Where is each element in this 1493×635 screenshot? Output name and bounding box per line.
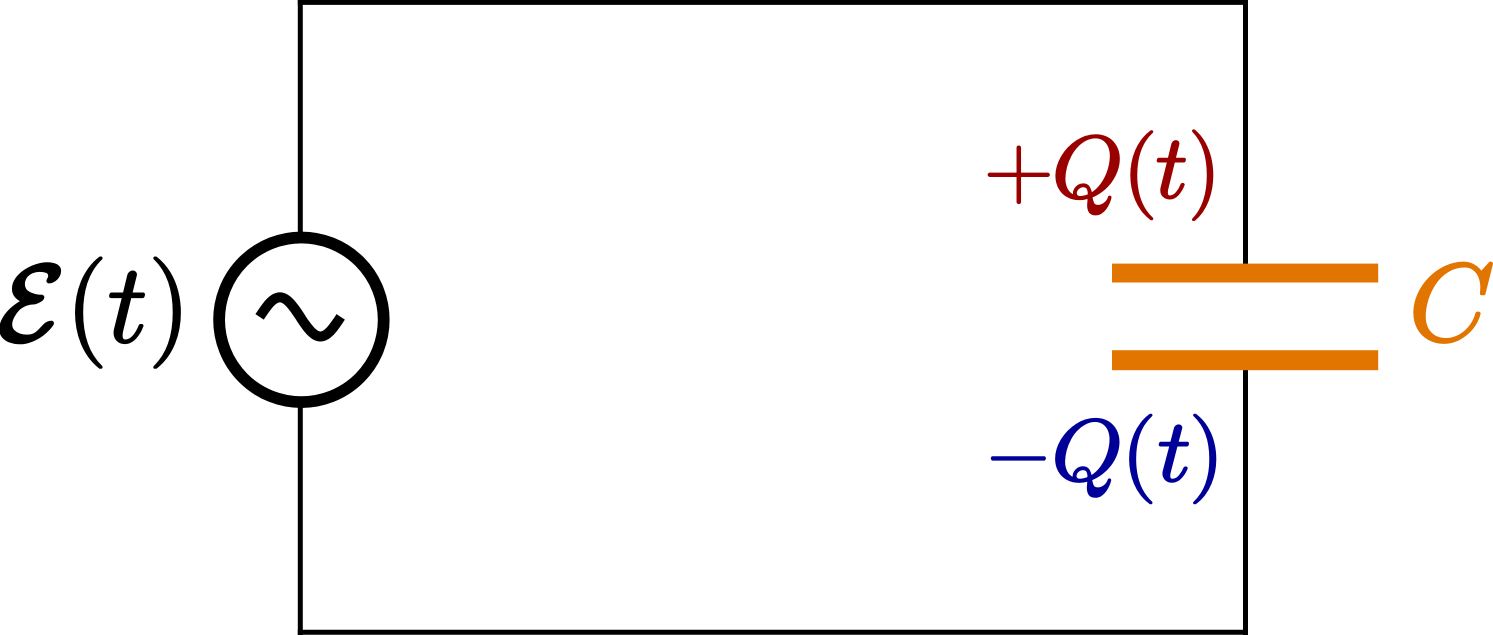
label ) of E(t) [154, 257, 180, 368]
capacitor C top plate [1112, 264, 1378, 283]
wire bottom [298, 630, 1248, 635]
wire top [298, 0, 1248, 5]
label t of -Q(t) [1160, 425, 1189, 482]
ac source sine symbol [260, 297, 341, 336]
ac source circle [219, 237, 384, 402]
label ( of -Q(t) [1130, 414, 1152, 503]
label minus of -Q(t) [991, 456, 1046, 460]
label ) of +Q(t) [1193, 130, 1213, 220]
label ( of E(t) [76, 257, 102, 368]
wire left [298, 0, 303, 635]
wire right upper [1243, 0, 1248, 272]
label Q of +Q(t) [1056, 135, 1119, 215]
label + of +Q(t) [988, 146, 1050, 204]
label Q of -Q(t) [1056, 419, 1119, 497]
label t of E(t) [110, 271, 144, 343]
label t of +Q(t) [1158, 141, 1186, 199]
wire right lower [1243, 361, 1248, 635]
label EMF script E of E(t) [1, 264, 60, 343]
label ( of +Q(t) [1131, 131, 1153, 220]
label ) of -Q(t) [1194, 414, 1216, 503]
capacitor C bottom plate [1112, 350, 1378, 370]
label C capacitance [1414, 263, 1492, 343]
